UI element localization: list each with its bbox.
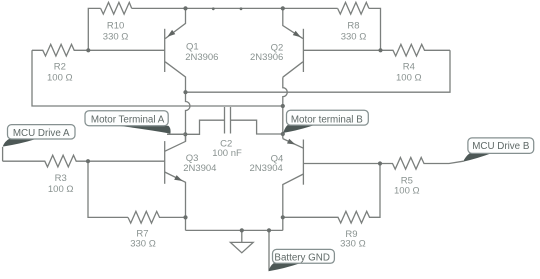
svg-text:Motor Terminal A: Motor Terminal A [91,114,165,125]
junction top rail Q2 emitter [281,6,285,10]
wire capacitor left branch [167,120,225,134]
resistor R10 [101,2,132,14]
resistor R4 [381,44,451,56]
resistor R5 [380,158,463,170]
svg-text:R8: R8 [347,21,359,32]
transistor Q4 [283,139,304,231]
junction Q3 emitter R7 [183,215,187,219]
wire top rail left segment [88,8,100,50]
svg-text:330 Ω: 330 Ω [341,31,367,42]
wire node A from R4 [186,50,451,92]
resistor R8 [338,2,369,14]
junction top rail Q1 emitter [183,6,187,10]
svg-text:330 Ω: 330 Ω [340,239,366,250]
junction node B [281,104,285,108]
wire Q1 base [88,49,164,51]
svg-text:2N3904: 2N3904 [183,163,216,174]
capacitor C2 [225,107,231,134]
node battery plus dot 2 [240,7,243,10]
callout Motor terminal B [283,110,368,133]
svg-text:R4: R4 [403,62,415,73]
svg-text:100 Ω: 100 Ω [394,185,420,196]
svg-text:R2: R2 [54,62,66,73]
wire node A vertical with hop over node B wire [186,92,191,141]
ground symbol [230,230,253,252]
junction motor terminal A [183,132,187,136]
junction R3 R7 Q3 base [86,159,90,163]
junction node A [183,90,187,94]
svg-text:Motor terminal B: Motor terminal B [291,114,363,125]
wire top rail middle [132,7,338,9]
wire Q3 base / resistor R3 [3,155,165,167]
svg-text:2N3906: 2N3906 [250,52,283,63]
svg-text:R10: R10 [107,21,124,32]
wire capacitor right branch [231,120,283,134]
wire Q2 base [303,49,380,51]
transistor Q1 [165,8,186,92]
svg-text:330 Ω: 330 Ω [130,239,156,250]
wire R7 branch [88,161,128,217]
wire node B left leg [32,50,283,106]
junction motor terminal B cap [281,132,285,136]
junction Q4 emitter R9 [281,215,285,219]
wire MCU drive A stub [2,147,4,161]
svg-text:100 Ω: 100 Ω [48,184,74,195]
wire battery GND stub [268,230,270,270]
callout MCU Drive A [3,125,75,147]
junction ground stem [240,228,244,232]
svg-text:2N3904: 2N3904 [250,163,283,174]
wire node B vertical [282,106,284,139]
svg-text:MCU Drive A: MCU Drive A [13,128,70,139]
wire motor terminal A stub [167,133,185,135]
callout Motor Terminal A [85,111,171,134]
junction battery stub [267,228,271,232]
junction R2 R10 Q1 base [86,48,90,52]
callout Battery GND [268,249,334,271]
wire Q4 base [303,163,380,165]
junction R5 R9 Q4 base [378,161,382,165]
transistor Q3 [165,134,186,230]
wire top rail right segment [369,8,381,50]
node battery plus dot 1 [212,7,215,10]
svg-text:2N3906: 2N3906 [185,52,218,63]
svg-text:100 nF: 100 nF [212,148,242,159]
resistor R7 [128,211,186,223]
junction R8 R4 Q2 base [378,48,382,52]
svg-text:330 Ω: 330 Ω [103,31,129,42]
svg-text:100 Ω: 100 Ω [396,72,422,83]
wire Q2 collector with hop over node A wire [283,77,288,106]
callout MCU Drive B [463,138,534,162]
resistor R2 [32,44,88,56]
svg-text:MCU Drive B: MCU Drive B [472,141,530,152]
wire bottom rail [186,229,283,231]
transistor Q2 [283,8,304,77]
svg-text:R3: R3 [55,173,67,184]
svg-text:100 Ω: 100 Ω [47,72,73,83]
resistor R9 [283,164,380,224]
svg-text:Battery GND: Battery GND [274,253,330,264]
